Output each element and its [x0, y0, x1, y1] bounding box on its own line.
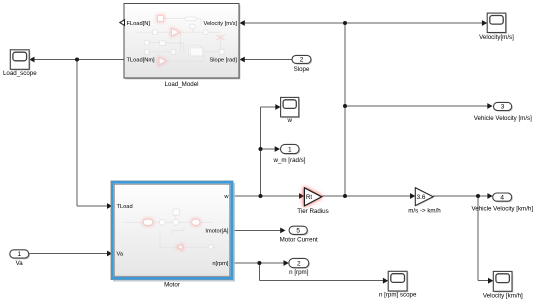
svg-text:TLoad: TLoad — [117, 204, 133, 210]
svg-text:1: 1 — [288, 146, 292, 153]
svg-text:Vehicle Velocity [m/s]: Vehicle Velocity [m/s] — [474, 115, 532, 122]
svg-text:Velocity [m/s]: Velocity [m/s] — [203, 21, 237, 27]
svg-text:Motor Current: Motor Current — [280, 237, 318, 244]
svg-text:Vehicle Velocity [km/h]: Vehicle Velocity [km/h] — [472, 206, 534, 213]
svg-text:Velocity[m/s]: Velocity[m/s] — [479, 34, 514, 41]
svg-text:3: 3 — [501, 104, 505, 111]
svg-text:FLoad[N]: FLoad[N] — [127, 21, 151, 27]
svg-text:1: 1 — [17, 251, 21, 258]
svg-text:n [rpm] scope: n [rpm] scope — [379, 292, 417, 299]
svg-text:w: w — [223, 194, 229, 200]
svg-text:Load_scope: Load_scope — [3, 70, 37, 77]
svg-text:TLoad[Nm]: TLoad[Nm] — [127, 58, 156, 64]
svg-text:3.6: 3.6 — [417, 194, 426, 201]
svg-text:2: 2 — [297, 260, 301, 267]
svg-text:5: 5 — [296, 228, 300, 235]
svg-text:Tier Radius: Tier Radius — [297, 208, 328, 215]
svg-text:Imotor[A]: Imotor[A] — [205, 228, 228, 234]
svg-text:Rt: Rt — [306, 195, 312, 201]
svg-text:n[rpm]: n[rpm] — [212, 261, 229, 267]
svg-text:Slope [rad]: Slope [rad] — [209, 58, 237, 64]
svg-text:4: 4 — [500, 194, 504, 201]
svg-text:n [rpm]: n [rpm] — [289, 269, 309, 276]
svg-text:Load_Model: Load_Model — [164, 81, 198, 88]
svg-text:2: 2 — [300, 57, 304, 64]
svg-text:Motor: Motor — [164, 281, 180, 288]
svg-text:w: w — [286, 117, 292, 124]
svg-text:Va: Va — [117, 252, 124, 258]
svg-text:Velocity [km/h]: Velocity [km/h] — [483, 293, 523, 300]
svg-text:m/s -> km/h: m/s -> km/h — [408, 208, 441, 215]
svg-text:Slope: Slope — [294, 66, 310, 73]
svg-text:Va: Va — [16, 260, 24, 267]
svg-text:w_m [rad/s]: w_m [rad/s] — [273, 157, 306, 164]
